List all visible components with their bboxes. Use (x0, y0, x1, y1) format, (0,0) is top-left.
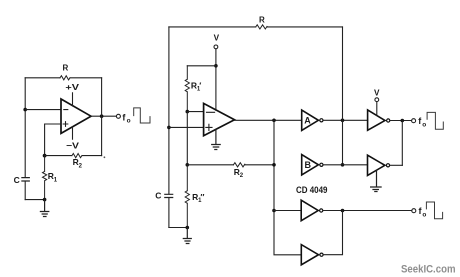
resistor R1'' (pulldown) (185, 165, 204, 228)
svg-text:C: C (155, 191, 161, 201)
node: inverting junction (mid) (186, 110, 190, 114)
resistor R2 (left) (72, 154, 83, 170)
capacitor C (middle) (155, 191, 172, 201)
svg-text:o: o (422, 121, 426, 128)
svg-text:A: A (304, 116, 311, 126)
svg-text:o: o (127, 118, 131, 125)
ground (bottom right buffer) (371, 170, 382, 191)
node: noninverting junction (167, 126, 171, 130)
svg-text:″: ″ (200, 192, 204, 202)
node: R2 junction (mid) (186, 163, 190, 167)
node: B output junction (341, 163, 345, 167)
wire: mid top feedback (169, 26, 343, 28)
svg-text:−V: −V (66, 141, 79, 151)
terminal V supply (middle) (214, 34, 220, 111)
svg-text:CD 4049: CD 4049 (296, 185, 328, 196)
svg-text:R: R (63, 64, 69, 73)
ground (middle bottom) (183, 228, 191, 244)
wire: feedback vertical rail (342, 27, 344, 165)
ground (comparator) (212, 129, 221, 149)
node: B input junction (272, 163, 276, 167)
node: V junction (214, 64, 218, 68)
label CD 4049 (296, 185, 328, 196)
wire: inverting input (25, 109, 61, 111)
wire: parallel buffer tie (401, 121, 403, 166)
wire: mid left vertical rail (168, 27, 170, 228)
node: inverting input junction (23, 108, 27, 112)
wire: noninverting input (169, 126, 204, 128)
wire: plus input (45, 124, 61, 156)
svg-text:1: 1 (54, 177, 58, 183)
wire: inverting input (mid) (187, 111, 203, 113)
node: output branch junction (272, 119, 276, 123)
capacitor C (left) (14, 175, 30, 185)
wire: input distribution rail (274, 120, 301, 255)
inverter 6 (bottom right buffer) (368, 155, 403, 175)
op-amp comparator (middle) (204, 103, 235, 135)
wire: third inverter output to fo (323, 210, 411, 212)
wire: right vertical rail (101, 78, 103, 156)
wire: buffer output to fo (390, 120, 411, 122)
node: buffer outputs junction (401, 119, 405, 123)
svg-text:R: R (259, 15, 265, 24)
inverter 5 (top right buffer) (368, 110, 390, 130)
resistor R1' (pullup) (185, 66, 201, 112)
node: lower outputs junction (341, 209, 345, 213)
wire: output to terminal (91, 115, 116, 117)
watermark SeekIC.com (401, 264, 456, 276)
wire: R2 branch (mid) (187, 164, 274, 166)
wire: R2 branch (left) (45, 155, 102, 157)
terminal fo (left) (116, 112, 130, 124)
wire: left vertical rail (24, 78, 26, 200)
wire: left osc top feedback (25, 77, 101, 79)
svg-text:′: ′ (199, 80, 201, 90)
ground (left circuit) (40, 200, 48, 217)
node: stray speck artifact (104, 156, 106, 158)
label -V supply (66, 127, 79, 151)
wire: mid bottom (169, 227, 187, 229)
svg-text:+V: +V (65, 82, 79, 92)
svg-text:SeekIC.com: SeekIC.com (401, 264, 456, 276)
node: third inverter input junction (272, 209, 276, 213)
resistor R1 (left) (43, 156, 58, 200)
node: R2/R1 junction (left) (43, 154, 47, 158)
svg-text:V: V (214, 34, 220, 43)
waveform: square wave (bottom right) (426, 202, 442, 219)
terminal V supply (top right) (374, 88, 380, 115)
wire: B output (324, 164, 368, 166)
node: output junction (100, 114, 104, 118)
label +V supply (65, 82, 79, 106)
waveform: square wave (left output) (134, 108, 150, 123)
terminal fo (top right) (412, 116, 427, 128)
inverter 3 (lower bank) (274, 200, 323, 221)
wire: comparator output (235, 119, 302, 121)
waveform: square wave (top right) (427, 112, 443, 129)
resistor R (left oscillator feedback) (60, 64, 70, 80)
op-amp U1 (left oscillator) (61, 99, 91, 133)
svg-text:C: C (14, 175, 20, 185)
wire: V to R1' (187, 65, 216, 67)
inverter A (302, 110, 323, 130)
svg-text:o: o (422, 212, 426, 219)
inverter 4 (lower bank) (301, 245, 323, 265)
node: bottom junction (43, 198, 47, 202)
node: mid bottom junction (186, 226, 190, 230)
terminal fo (bottom right) (412, 206, 427, 218)
wire: bottom (25, 199, 44, 201)
wire: A output (324, 119, 368, 121)
svg-text:2: 2 (240, 173, 244, 179)
svg-text:V: V (374, 88, 380, 97)
svg-text:B: B (305, 160, 312, 170)
resistor R (CD4049 feedback) (256, 15, 267, 29)
node: A output junction (341, 119, 345, 123)
resistor R2 (mid) (233, 163, 244, 179)
wire: mid sense rail (186, 112, 188, 165)
inverter B (302, 155, 323, 175)
wire: fourth inverter output return (324, 211, 343, 255)
svg-text:2: 2 (79, 163, 83, 169)
